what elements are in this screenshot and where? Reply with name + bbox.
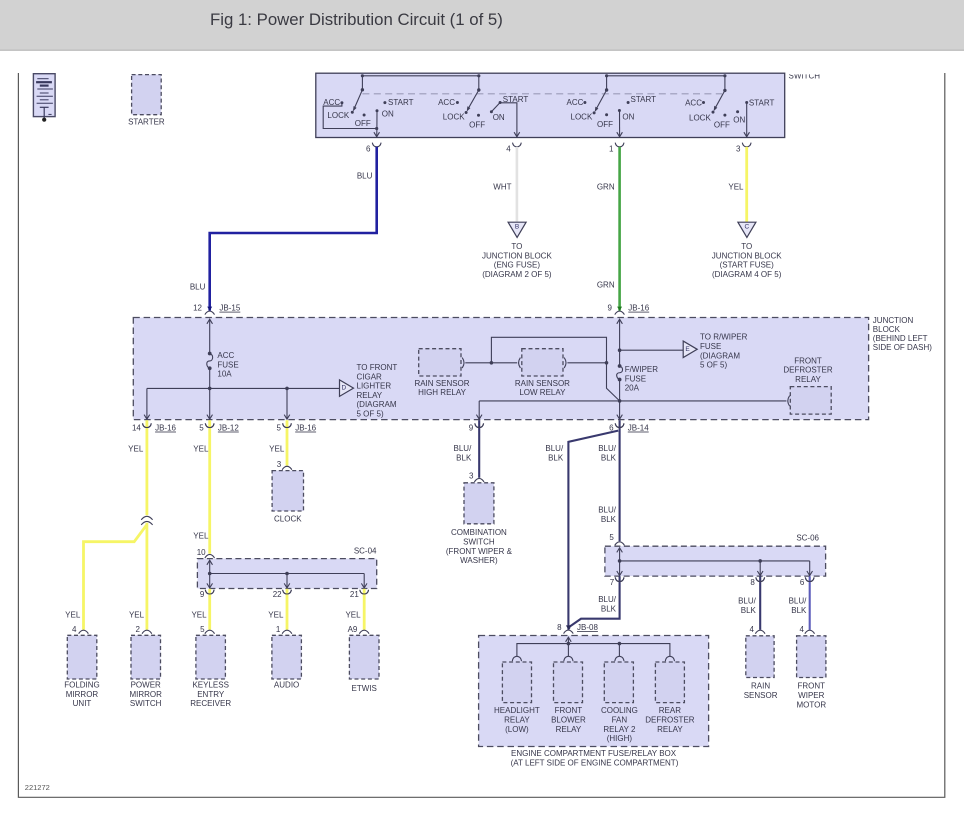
combination switch (front wiper and washer) — [464, 483, 494, 524]
svg-text:OFF: OFF — [355, 119, 371, 128]
header bar — [0, 0, 964, 49]
svg-text:TO FRONT: TO FRONT — [357, 363, 398, 372]
wire low relay to node — [567, 362, 606, 364]
svg-text:JB-16: JB-16 — [155, 424, 176, 433]
svg-text:(DIAGRAM: (DIAGRAM — [700, 351, 740, 360]
wire to connector E — [620, 349, 684, 351]
low relay output connector ) — [564, 358, 566, 368]
svg-text:(HIGH): (HIGH) — [607, 734, 633, 743]
bottom bus to defroster relay — [479, 400, 786, 402]
svg-text:9: 9 — [469, 424, 474, 433]
svg-text:12: 12 — [193, 304, 202, 313]
svg-text:OFF: OFF — [597, 120, 613, 129]
svg-text:BLK: BLK — [548, 453, 564, 462]
audio — [272, 635, 302, 679]
svg-text:UNIT: UNIT — [73, 699, 92, 708]
svg-text:JUNCTION BLOCK: JUNCTION BLOCK — [482, 251, 552, 260]
wire WHT from pin 4 to connector B — [516, 147, 519, 222]
wire BLU/BLK SC-06/8 to rain sensor — [759, 576, 761, 630]
svg-text:ACC: ACC — [217, 351, 234, 360]
svg-text:22: 22 — [273, 590, 282, 599]
connector C — [738, 222, 756, 237]
svg-text:20A: 20A — [625, 384, 640, 393]
junction block exit 14 — [143, 423, 152, 427]
wire YEL from pin 3 to connector C — [745, 147, 748, 222]
svg-text:(FRONT WIPER &: (FRONT WIPER & — [446, 547, 513, 556]
junction block box — [133, 318, 868, 420]
connector arc JB-16 entry — [615, 311, 625, 315]
svg-text:GRN: GRN — [597, 280, 615, 289]
ignition switch pin 4 connector — [513, 143, 522, 147]
wire BLU/BLK 6/JB-14 split — [619, 420, 621, 541]
svg-text:JB-16: JB-16 — [295, 424, 316, 433]
svg-text:JB-15: JB-15 — [219, 304, 240, 313]
svg-text:(AT LEFT SIDE OF ENGINE COMPAR: (AT LEFT SIDE OF ENGINE COMPARTMENT) — [511, 758, 679, 767]
svg-text:LOCK: LOCK — [571, 113, 593, 122]
svg-text:BLU/: BLU/ — [738, 597, 757, 606]
ignition switch pin 1 connector — [615, 143, 624, 147]
svg-text:FRONT: FRONT — [555, 706, 583, 715]
svg-text:SWITCH: SWITCH — [789, 72, 821, 81]
svg-text:ACC: ACC — [567, 98, 584, 107]
JB-16 internal entry arrow — [619, 320, 621, 367]
svg-text:FRONT: FRONT — [794, 356, 822, 365]
svg-text:ON: ON — [493, 113, 505, 122]
svg-text:5: 5 — [200, 625, 205, 634]
JB-15 internal entry arrow — [209, 320, 211, 354]
left distribution bus — [147, 387, 340, 389]
svg-text:JB-08: JB-08 — [577, 623, 598, 632]
svg-text:TO: TO — [741, 242, 752, 251]
junction block exit 5 — [283, 423, 292, 427]
svg-text:JB-16: JB-16 — [628, 304, 649, 313]
svg-text:HEADLIGHT: HEADLIGHT — [494, 706, 540, 715]
svg-text:MIRROR: MIRROR — [66, 690, 99, 699]
svg-text:C: C — [745, 224, 750, 231]
svg-text:YEL: YEL — [128, 445, 144, 454]
svg-text:START: START — [388, 98, 414, 107]
SC-06 exit 8 — [756, 577, 765, 581]
defroster relay input connector ( — [788, 396, 790, 406]
svg-text:AUDIO: AUDIO — [274, 681, 299, 690]
svg-text:E: E — [685, 346, 690, 353]
svg-text:ON: ON — [622, 113, 634, 122]
front blower relay coil connector — [564, 656, 573, 661]
svg-text:FOLDING: FOLDING — [64, 681, 100, 690]
svg-text:LOCK: LOCK — [327, 111, 349, 120]
connector arc JB-15 entry — [205, 311, 215, 315]
ignition switch box — [316, 73, 785, 137]
svg-text:COOLING: COOLING — [601, 706, 638, 715]
svg-text:TO R/WIPER: TO R/WIPER — [700, 333, 748, 342]
svg-text:1: 1 — [609, 145, 614, 154]
SC-06 exit 6 — [805, 577, 814, 581]
front wiper motor — [797, 636, 826, 678]
svg-text:YEL: YEL — [268, 611, 284, 620]
svg-text:RAIN SENSOR: RAIN SENSOR — [414, 379, 469, 388]
svg-text:ON: ON — [382, 110, 394, 119]
svg-text:TO: TO — [511, 242, 522, 251]
wire BLU/BLK SC-06/6 to front wiper motor — [809, 576, 811, 630]
power mirror switch — [131, 635, 161, 679]
svg-text:4: 4 — [72, 625, 77, 634]
svg-text:5 OF 5): 5 OF 5) — [700, 361, 727, 370]
svg-text:4: 4 — [506, 145, 511, 154]
svg-text:221272: 221272 — [25, 783, 50, 792]
svg-text:KEYLESS: KEYLESS — [192, 681, 228, 690]
svg-text:SENSOR: SENSOR — [744, 691, 778, 700]
svg-text:SC-04: SC-04 — [354, 547, 377, 556]
connector D to front cigar lighter relay — [340, 380, 354, 397]
svg-text:BLK: BLK — [601, 604, 617, 613]
svg-text:JUNCTION: JUNCTION — [873, 316, 914, 325]
svg-text:CLOCK: CLOCK — [274, 514, 302, 523]
svg-text:SC-06: SC-06 — [796, 534, 819, 543]
svg-text:YEL: YEL — [269, 445, 285, 454]
svg-text:8: 8 — [557, 623, 562, 632]
svg-text:(BEHIND LEFT: (BEHIND LEFT — [873, 334, 928, 343]
svg-text:8: 8 — [750, 578, 755, 587]
svg-text:FUSE: FUSE — [625, 374, 646, 383]
svg-text:4: 4 — [750, 625, 755, 634]
inline connector pair on wire 14 — [141, 516, 152, 520]
svg-text:RELAY 2: RELAY 2 — [603, 725, 636, 734]
svg-text:RELAY: RELAY — [504, 716, 530, 725]
svg-text:RAIN SENSOR: RAIN SENSOR — [515, 379, 570, 388]
svg-text:RELAY: RELAY — [657, 725, 683, 734]
wire YEL 5/JB-16 to clock — [286, 420, 289, 465]
svg-text:(LOW): (LOW) — [505, 725, 529, 734]
svg-text:6: 6 — [800, 578, 805, 587]
svg-text:21: 21 — [350, 590, 359, 599]
svg-text:HIGH RELAY: HIGH RELAY — [418, 388, 467, 397]
relay feed bus — [517, 644, 670, 656]
F/WIPER fuse 20A — [618, 364, 622, 368]
wire YEL SC-04/9 to keyless entry receiver — [208, 589, 211, 630]
svg-text:1: 1 — [276, 625, 281, 634]
SC-04 exit 21 — [360, 590, 369, 594]
svg-text:BLK: BLK — [741, 606, 757, 615]
svg-text:YEL: YEL — [728, 183, 744, 192]
connector E to r/wiper fuse — [683, 341, 697, 358]
svg-text:DEFROSTER: DEFROSTER — [645, 716, 695, 725]
svg-text:MOTOR: MOTOR — [796, 700, 826, 709]
ignition switch section 2 (pin 4) — [438, 74, 528, 137]
svg-text:LOCK: LOCK — [689, 113, 711, 122]
branch wire to folding mirror unit — [84, 525, 147, 630]
dashed accessory line — [362, 93, 722, 95]
svg-text:STARTER: STARTER — [128, 118, 165, 127]
svg-text:5: 5 — [609, 533, 614, 542]
svg-text:BLK: BLK — [601, 515, 617, 524]
svg-text:SWITCH: SWITCH — [463, 538, 495, 547]
wire fuse to bus — [209, 368, 211, 388]
svg-text:WHT: WHT — [493, 183, 511, 192]
front defroster relay — [790, 387, 831, 415]
svg-text:SIDE OF DASH): SIDE OF DASH) — [873, 343, 932, 352]
high relay output connector ) — [462, 358, 464, 368]
svg-text:4: 4 — [800, 625, 805, 634]
svg-text:9: 9 — [200, 590, 205, 599]
wire YEL 5/JB-12 to SC-04 — [208, 420, 211, 554]
front blower relay — [554, 662, 583, 703]
svg-text:D: D — [341, 385, 346, 392]
svg-text:9: 9 — [608, 304, 613, 313]
svg-text:B: B — [515, 224, 519, 231]
wire YEL SC-04/21 to ETWIS — [363, 589, 366, 630]
svg-text:MIRROR: MIRROR — [129, 690, 162, 699]
wire GRN from pin 1 to JB-16 — [618, 147, 621, 311]
svg-text:BLU/: BLU/ — [598, 444, 617, 453]
keyless entry receiver — [196, 635, 226, 679]
svg-text:2: 2 — [135, 625, 140, 634]
ETWIS — [349, 635, 379, 679]
svg-text:3: 3 — [277, 460, 282, 469]
ACC fuse 10A — [208, 352, 212, 356]
engine compartment fuse/relay box — [479, 636, 709, 747]
rain sensor high relay — [419, 349, 461, 376]
svg-text:BLU/: BLU/ — [598, 595, 617, 604]
svg-text:7: 7 — [610, 578, 615, 587]
svg-text:RELAY: RELAY — [556, 725, 582, 734]
svg-text:(ENG FUSE): (ENG FUSE) — [494, 261, 541, 270]
svg-text:ACC: ACC — [438, 98, 455, 107]
svg-text:REAR: REAR — [659, 706, 681, 715]
battery B+ — [33, 74, 55, 117]
svg-text:ACC: ACC — [685, 98, 702, 107]
svg-text:(DIAGRAM: (DIAGRAM — [357, 400, 397, 409]
rear defroster relay — [655, 662, 684, 703]
svg-text:BLU/: BLU/ — [454, 444, 473, 453]
svg-text:BLOCK: BLOCK — [873, 325, 901, 334]
svg-text:YEL: YEL — [191, 611, 207, 620]
headlight relay (low) — [502, 662, 531, 703]
svg-text:LOCK: LOCK — [443, 113, 465, 122]
svg-text:(DIAGRAM 4 OF 5): (DIAGRAM 4 OF 5) — [712, 270, 782, 279]
svg-text:F/WIPER: F/WIPER — [625, 365, 659, 374]
svg-text:DEFROSTER: DEFROSTER — [783, 366, 833, 375]
rain sensor low relay — [522, 349, 563, 376]
junction block exit 5 — [205, 423, 214, 427]
svg-text:14: 14 — [132, 424, 141, 433]
splice connector SC-06 — [605, 546, 826, 576]
rear defroster relay coil connector — [665, 656, 674, 661]
svg-text:BLK: BLK — [456, 453, 472, 462]
clock — [272, 471, 303, 511]
svg-text:YEL: YEL — [65, 611, 81, 620]
low relay input connector ( — [519, 358, 521, 368]
svg-text:5 OF 5): 5 OF 5) — [357, 410, 384, 419]
headlight relay (low) coil connector — [512, 656, 521, 661]
JB-08 entry — [564, 630, 574, 634]
connector B — [508, 222, 526, 237]
svg-text:10A: 10A — [217, 370, 232, 379]
svg-text:6: 6 — [366, 145, 371, 154]
wire BLU from pin 6 to JB-15 — [210, 147, 377, 311]
ignition switch pin 3 connector — [742, 143, 751, 147]
svg-text:3: 3 — [736, 145, 741, 154]
svg-text:BLU: BLU — [190, 283, 206, 292]
svg-text:START: START — [631, 95, 657, 104]
SC-04 exit 22 — [283, 590, 292, 594]
wire BLU/BLK SC-06/7 to JB-08 — [569, 576, 620, 629]
svg-text:ETWIS: ETWIS — [352, 684, 377, 693]
svg-text:LIGHTER: LIGHTER — [357, 382, 392, 391]
svg-text:BLU/: BLU/ — [789, 597, 808, 606]
svg-text:ENTRY: ENTRY — [197, 690, 225, 699]
svg-text:RELAY: RELAY — [357, 391, 383, 400]
svg-text:COMBINATION: COMBINATION — [451, 528, 507, 537]
svg-text:10: 10 — [197, 548, 206, 557]
svg-text:(DIAGRAM 2 OF 5): (DIAGRAM 2 OF 5) — [482, 270, 552, 279]
svg-text:(START FUSE): (START FUSE) — [720, 261, 775, 270]
svg-text:A9: A9 — [348, 625, 358, 634]
svg-text:SWITCH: SWITCH — [130, 699, 162, 708]
svg-text:BLOWER: BLOWER — [551, 716, 586, 725]
JB-08 internal entry arrow — [567, 637, 569, 643]
ignition switch section 1 (pin 6) — [323, 74, 413, 137]
wire YEL 14/JB-16 to mirror units — [145, 420, 148, 515]
svg-text:RELAY: RELAY — [795, 375, 821, 384]
svg-text:5: 5 — [277, 424, 282, 433]
ignition switch section 3 (pin 1) — [567, 74, 657, 137]
cooling fan relay 2 (high) coil connector — [615, 656, 624, 661]
svg-text:WIPER: WIPER — [798, 691, 824, 700]
wire BLU/BLK 9 to combination switch — [478, 420, 480, 478]
wire YEL SC-04/22 to audio — [286, 589, 289, 630]
svg-text:LOW RELAY: LOW RELAY — [519, 388, 566, 397]
svg-text:RAIN: RAIN — [751, 682, 770, 691]
splice connector SC-04 — [197, 559, 376, 589]
svg-text:START: START — [749, 98, 775, 107]
svg-text:OFF: OFF — [714, 120, 730, 129]
svg-text:BLU/: BLU/ — [598, 506, 617, 515]
svg-text:FAN: FAN — [612, 716, 628, 725]
exit connector cups overlay — [143, 423, 152, 427]
ignition switch pin 6 connector — [372, 143, 381, 147]
svg-text:JB-14: JB-14 — [628, 424, 649, 433]
svg-text:YEL: YEL — [129, 611, 145, 620]
svg-text:BLU: BLU — [357, 172, 373, 181]
ignition switch label SWITCH (clipped at frame top) — [789, 72, 821, 81]
svg-text:FUSE: FUSE — [217, 360, 238, 369]
svg-text:JB-12: JB-12 — [218, 424, 239, 433]
svg-text:BLK: BLK — [601, 453, 617, 462]
svg-text:ON: ON — [733, 115, 745, 124]
branch up-over wire — [491, 337, 619, 401]
ignition switch section 4 (pin 3) — [685, 74, 774, 137]
svg-text:CIGAR: CIGAR — [357, 372, 383, 381]
svg-text:ENGINE COMPARTMENT FUSE/RELAY: ENGINE COMPARTMENT FUSE/RELAY BOX — [511, 749, 677, 758]
svg-text:FRONT: FRONT — [798, 682, 826, 691]
svg-text:BLK: BLK — [791, 606, 807, 615]
svg-text:JUNCTION BLOCK: JUNCTION BLOCK — [712, 251, 782, 260]
folding mirror unit entry — [79, 630, 89, 634]
svg-text:YEL: YEL — [193, 445, 209, 454]
svg-text:OFF: OFF — [469, 121, 485, 130]
svg-text:GRN: GRN — [597, 183, 615, 192]
svg-text:BLU/: BLU/ — [545, 444, 564, 453]
SC-06 exit 7 — [615, 577, 624, 581]
cooling fan relay 2 (high) — [604, 662, 633, 703]
power mirror switch entry — [142, 630, 152, 634]
folding mirror unit — [67, 635, 97, 679]
wire high relay to node — [465, 362, 517, 364]
svg-text:YEL: YEL — [193, 531, 209, 540]
svg-text:WASHER): WASHER) — [460, 556, 498, 565]
svg-text:Fig 1: Power Distribution Circ: Fig 1: Power Distribution Circuit (1 of … — [210, 10, 503, 29]
junction block exit 9 — [475, 423, 484, 427]
top link bus section 1-2 — [362, 75, 480, 77]
svg-text:YEL: YEL — [345, 611, 361, 620]
svg-text:RECEIVER: RECEIVER — [190, 699, 231, 708]
junction block exit 6 — [615, 423, 624, 427]
svg-text:3: 3 — [469, 472, 474, 481]
svg-text:POWER: POWER — [131, 681, 161, 690]
SC-04 exit 9 — [205, 590, 214, 594]
svg-text:FUSE: FUSE — [700, 342, 721, 351]
starter — [132, 75, 162, 115]
rain sensor — [746, 636, 774, 678]
top link bus section 3-4 — [607, 75, 725, 77]
svg-text:5: 5 — [199, 424, 204, 433]
